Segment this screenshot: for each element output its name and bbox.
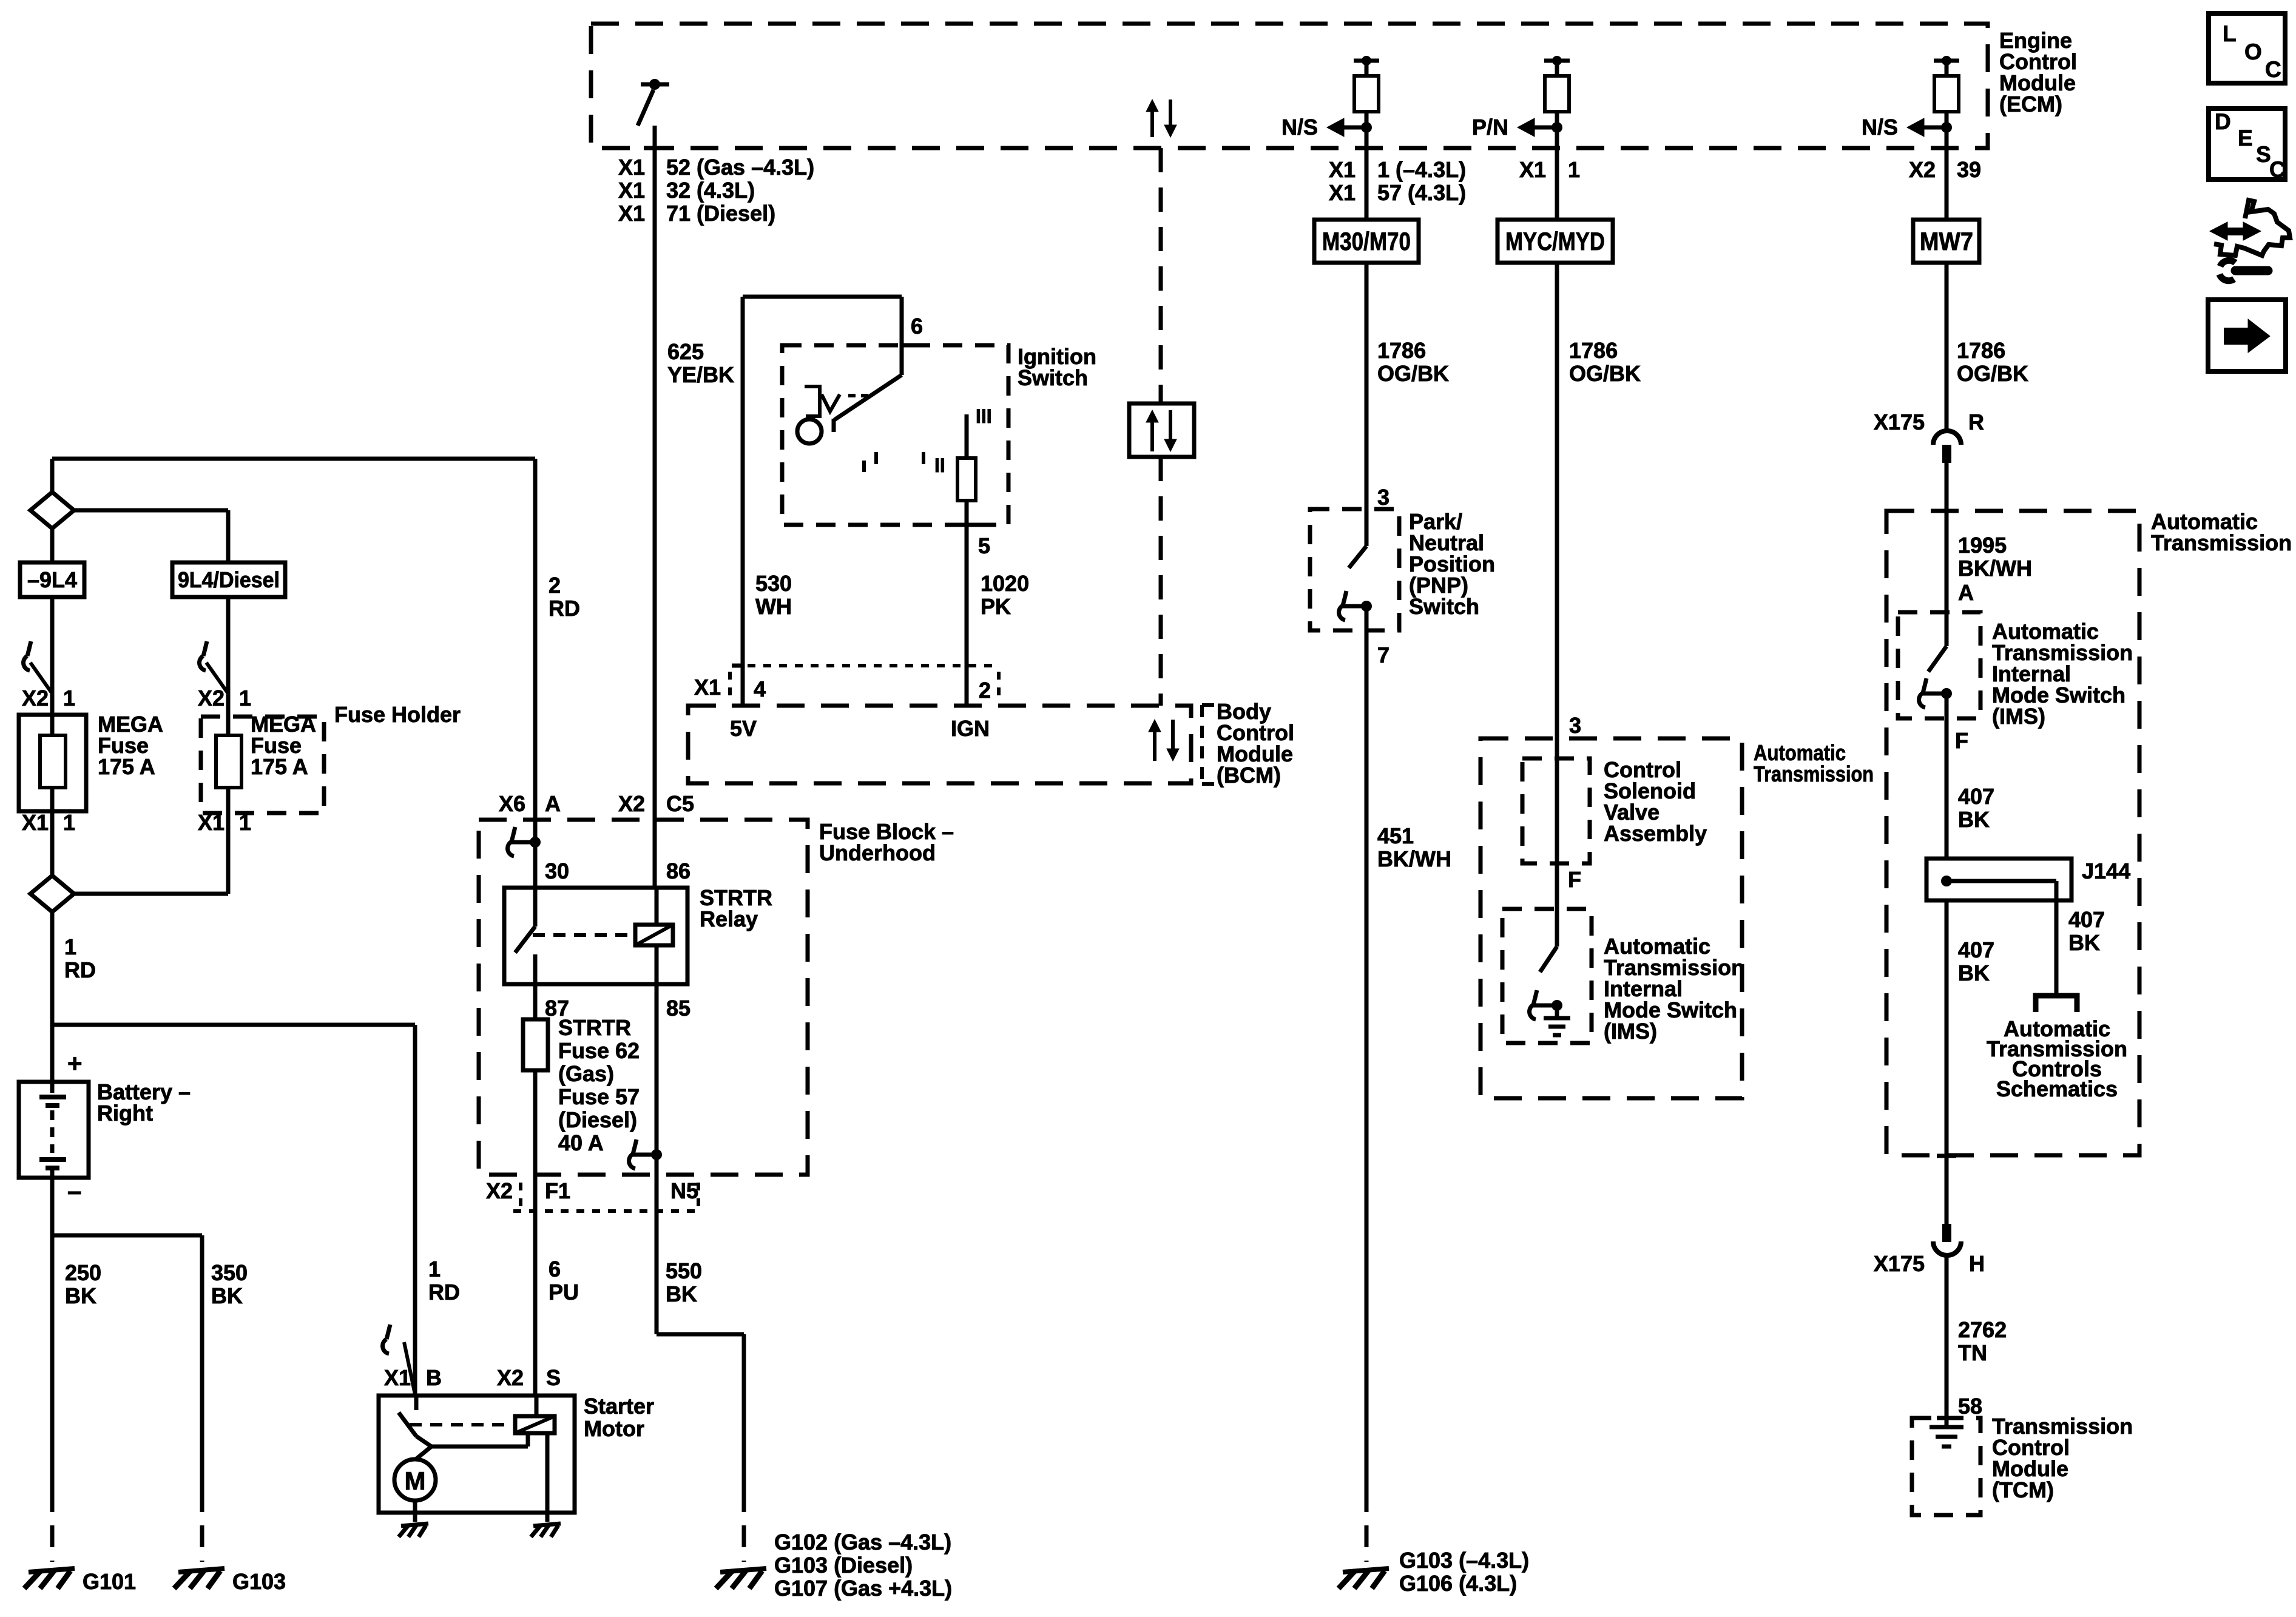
svg-text:175 A: 175 A	[251, 754, 308, 779]
svg-text:(IMS): (IMS)	[1992, 704, 2045, 729]
svg-text:OG/BK: OG/BK	[1957, 361, 2028, 386]
svg-text:3: 3	[1569, 713, 1581, 738]
svg-text:Switch: Switch	[1409, 594, 1479, 619]
svg-text:F: F	[1955, 728, 1968, 753]
svg-text:X1: X1	[694, 675, 721, 700]
svg-text:P/N: P/N	[1472, 115, 1508, 140]
svg-text:N/S: N/S	[1281, 115, 1318, 140]
svg-text:1786: 1786	[1569, 338, 1618, 363]
svg-text:Transmission: Transmission	[1754, 761, 1874, 786]
svg-text:39: 39	[1957, 157, 1981, 182]
svg-text:30: 30	[545, 859, 569, 883]
svg-text:BK: BK	[65, 1283, 96, 1308]
svg-text:Assembly: Assembly	[1604, 821, 1707, 846]
svg-text:WH: WH	[755, 594, 792, 619]
svg-text:Switch: Switch	[1018, 365, 1088, 390]
svg-text:OG/BK: OG/BK	[1377, 361, 1449, 386]
svg-text:G103: G103	[232, 1569, 286, 1594]
svg-text:F: F	[1568, 867, 1581, 892]
svg-text:32 (4.3L): 32 (4.3L)	[666, 178, 755, 203]
svg-text:YE/BK: YE/BK	[667, 362, 734, 387]
svg-text:G101: G101	[83, 1569, 136, 1594]
svg-text:Fuse Holder: Fuse Holder	[334, 702, 461, 727]
svg-text:N/S: N/S	[1862, 115, 1898, 140]
svg-text:S: S	[2256, 142, 2271, 167]
svg-text:X2: X2	[1909, 157, 1936, 182]
svg-text:C: C	[2269, 157, 2286, 182]
svg-text:Schematics: Schematics	[1996, 1076, 2118, 1101]
svg-text:1: 1	[428, 1257, 441, 1281]
svg-text:1 (–4.3L): 1 (–4.3L)	[1377, 157, 1466, 182]
svg-text:X175: X175	[1874, 1251, 1925, 1276]
svg-text:OG/BK: OG/BK	[1569, 361, 1641, 386]
svg-text:1: 1	[63, 686, 75, 711]
svg-text:–: –	[67, 1176, 81, 1205]
svg-text:Motor: Motor	[584, 1416, 644, 1441]
svg-text:H: H	[1969, 1251, 1985, 1276]
svg-text:Underhood: Underhood	[819, 840, 936, 865]
svg-text:407: 407	[1958, 937, 1994, 962]
svg-text:J144: J144	[2082, 859, 2130, 883]
svg-text:X2: X2	[618, 791, 645, 816]
svg-text:407: 407	[1958, 784, 1994, 809]
svg-text:M: M	[405, 1467, 426, 1495]
svg-text:5V: 5V	[730, 716, 757, 741]
svg-text:1: 1	[1568, 157, 1580, 182]
svg-text:(Diesel): (Diesel)	[558, 1107, 637, 1132]
svg-text:BK/WH: BK/WH	[1958, 556, 2032, 581]
svg-text:Relay: Relay	[700, 906, 758, 931]
svg-text:(ECM): (ECM)	[1999, 92, 2062, 116]
svg-text:F1: F1	[545, 1178, 570, 1203]
svg-text:B: B	[426, 1365, 442, 1390]
svg-text:2762: 2762	[1958, 1317, 2007, 1342]
svg-text:G107 (Gas +4.3L): G107 (Gas +4.3L)	[774, 1576, 952, 1601]
svg-text:530: 530	[755, 571, 792, 596]
svg-text:6: 6	[549, 1257, 561, 1281]
svg-text:175 A: 175 A	[98, 754, 155, 779]
svg-text:X1: X1	[618, 178, 645, 203]
svg-text:BK: BK	[2068, 930, 2100, 955]
svg-text:E: E	[2238, 126, 2253, 150]
svg-text:6: 6	[911, 314, 923, 339]
svg-text:G103 (Diesel): G103 (Diesel)	[774, 1553, 913, 1578]
svg-text:58: 58	[1958, 1394, 1982, 1419]
svg-text:A: A	[545, 791, 561, 816]
svg-text:1: 1	[63, 810, 75, 835]
svg-text:BK: BK	[1958, 807, 1990, 832]
svg-text:(Gas): (Gas)	[558, 1061, 614, 1086]
svg-text:IGN: IGN	[951, 716, 990, 741]
svg-text:+: +	[67, 1049, 83, 1078]
svg-text:(BCM): (BCM)	[1217, 763, 1281, 788]
svg-text:X1: X1	[384, 1365, 411, 1390]
svg-text:7: 7	[1377, 643, 1389, 667]
svg-text:(TCM): (TCM)	[1992, 1477, 2054, 1502]
svg-text:X1: X1	[618, 155, 645, 180]
svg-text:X6: X6	[499, 791, 525, 816]
svg-text:1: 1	[239, 686, 251, 711]
svg-text:X2: X2	[497, 1365, 524, 1390]
svg-text:52 (Gas –4.3L): 52 (Gas –4.3L)	[666, 155, 814, 180]
svg-text:S: S	[546, 1365, 561, 1390]
svg-text:BK: BK	[666, 1281, 697, 1306]
svg-text:N5: N5	[670, 1178, 698, 1203]
svg-text:X1: X1	[1329, 157, 1356, 182]
svg-text:X2: X2	[486, 1178, 513, 1203]
svg-text:1: 1	[64, 934, 76, 959]
svg-text:RD: RD	[428, 1280, 460, 1305]
svg-text:9L4/Diesel: 9L4/Diesel	[178, 567, 280, 592]
svg-text:Fuse 57: Fuse 57	[558, 1084, 640, 1109]
svg-text:71 (Diesel): 71 (Diesel)	[666, 201, 775, 226]
svg-text:R: R	[1968, 410, 1984, 434]
svg-text:40 A: 40 A	[558, 1130, 604, 1155]
svg-text:Fuse 62: Fuse 62	[558, 1038, 640, 1063]
svg-text:–9L4: –9L4	[27, 567, 77, 592]
svg-text:625: 625	[667, 339, 704, 364]
svg-text:X1: X1	[22, 810, 49, 835]
svg-text:BK: BK	[1958, 960, 1990, 985]
svg-text:O: O	[2244, 39, 2262, 64]
svg-text:Transmission: Transmission	[2151, 530, 2292, 555]
svg-text:X1: X1	[618, 201, 645, 226]
svg-text:X2: X2	[22, 686, 49, 711]
svg-text:86: 86	[666, 859, 690, 883]
svg-text:BK/WH: BK/WH	[1377, 846, 1451, 871]
svg-text:1786: 1786	[1957, 338, 2005, 363]
svg-text:X1: X1	[1329, 180, 1356, 205]
svg-text:M30/M70: M30/M70	[1322, 227, 1411, 255]
svg-text:250: 250	[65, 1260, 101, 1285]
svg-text:D: D	[2215, 109, 2231, 134]
svg-text:Right: Right	[97, 1101, 153, 1126]
svg-text:G106 (4.3L): G106 (4.3L)	[1399, 1571, 1517, 1596]
svg-text:407: 407	[2068, 907, 2105, 932]
svg-text:II: II	[934, 454, 945, 476]
svg-text:1: 1	[239, 810, 251, 835]
svg-text:G103 (–4.3L): G103 (–4.3L)	[1399, 1548, 1529, 1573]
svg-text:85: 85	[666, 996, 690, 1021]
svg-text:MYC/MYD: MYC/MYD	[1505, 227, 1605, 255]
svg-text:2: 2	[979, 678, 991, 703]
svg-text:4: 4	[754, 677, 766, 701]
svg-text:A: A	[1958, 580, 1974, 605]
svg-text:350: 350	[211, 1260, 248, 1285]
svg-text:TN: TN	[1958, 1340, 1987, 1365]
svg-text:57 (4.3L): 57 (4.3L)	[1377, 180, 1466, 205]
svg-text:L: L	[2223, 21, 2237, 46]
svg-text:X1: X1	[198, 810, 225, 835]
svg-text:X175: X175	[1874, 410, 1925, 434]
svg-text:C5: C5	[666, 791, 694, 816]
svg-text:RD: RD	[549, 596, 580, 621]
svg-text:MW7: MW7	[1920, 227, 1973, 255]
svg-text:Starter: Starter	[584, 1394, 654, 1419]
svg-text:C: C	[2265, 57, 2281, 82]
svg-text:(IMS): (IMS)	[1604, 1019, 1657, 1044]
svg-text:2: 2	[549, 573, 561, 598]
svg-text:550: 550	[666, 1258, 702, 1283]
svg-text:X1: X1	[1519, 157, 1546, 182]
svg-text:RD: RD	[64, 957, 96, 982]
svg-text:PU: PU	[549, 1280, 579, 1305]
svg-text:3: 3	[1377, 485, 1389, 510]
svg-text:STRTR: STRTR	[558, 1015, 631, 1040]
svg-text:PK: PK	[981, 594, 1011, 619]
svg-text:BK: BK	[211, 1283, 243, 1308]
svg-text:1786: 1786	[1377, 338, 1426, 363]
svg-text:1995: 1995	[1958, 533, 2007, 558]
svg-text:X2: X2	[198, 686, 225, 711]
svg-text:451: 451	[1377, 823, 1414, 848]
svg-text:5: 5	[978, 533, 990, 558]
svg-text:III: III	[976, 405, 992, 427]
svg-text:1020: 1020	[981, 571, 1029, 596]
svg-text:G102 (Gas –4.3L): G102 (Gas –4.3L)	[774, 1530, 951, 1555]
